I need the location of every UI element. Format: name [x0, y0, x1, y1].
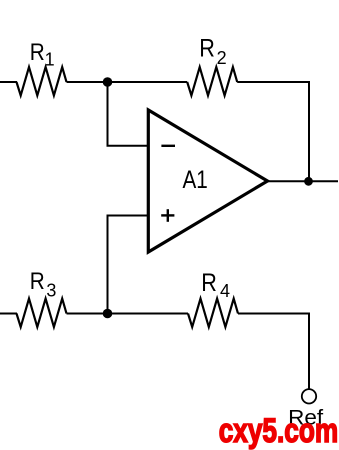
wire: inverting input branch vertical from node A — [107, 82, 109, 146]
wire: non-inverting input branch vertical from node B — [107, 216, 109, 314]
pin marker: inverting input minus sign — [161, 145, 175, 147]
node A: junction dot at R1/R2/inverting branch — [103, 77, 113, 87]
svg-text:2: 2 — [217, 48, 227, 68]
label R3 — [30, 268, 57, 300]
resistor R4 — [188, 299, 238, 327]
terminal: Ref open circle — [302, 389, 316, 403]
wire: feedback vertical drop to output node — [308, 81, 310, 181]
label R4 — [201, 269, 230, 301]
label R2 — [199, 35, 226, 68]
pin marker: non-inverting input plus sign — [161, 209, 174, 222]
node B: junction dot at R3/R4/non-inverting branch — [103, 309, 113, 319]
wire: inverting input horizontal into op-amp — [107, 145, 149, 147]
wire: vertical drop to Ref terminal — [308, 313, 310, 389]
wire: top rail left segment (input to R1) — [0, 81, 17, 83]
svg-text:R: R — [30, 39, 45, 66]
svg-text:A1: A1 — [183, 166, 208, 194]
wire: top rail from R2 to feedback corner — [237, 81, 309, 83]
op-amp A1 — [148, 110, 267, 252]
svg-text:4: 4 — [220, 281, 230, 301]
resistor R3 — [17, 299, 67, 327]
wire: bottom rail from R4 to Ref corner — [238, 313, 309, 315]
wire: bottom rail from R3 to R4 through node B — [67, 313, 189, 315]
resistor R1 — [17, 67, 67, 95]
label R1 — [30, 39, 55, 70]
node OUT: output junction dot — [304, 177, 313, 186]
svg-text:R: R — [199, 35, 215, 63]
svg-text:cxy5.com: cxy5.com — [219, 412, 339, 450]
svg-text:3: 3 — [46, 281, 56, 301]
resistor R2 — [187, 67, 237, 95]
svg-text:R: R — [30, 268, 45, 295]
wire: top rail from R1 to R2 through node A — [67, 81, 188, 83]
svg-text:1: 1 — [45, 50, 55, 70]
svg-text:R: R — [201, 269, 217, 297]
wire: non-inverting input horizontal into op-amp — [107, 215, 149, 217]
wire: bottom rail left segment (input to R3) — [0, 313, 17, 315]
wire: op-amp output to right edge — [268, 180, 339, 182]
